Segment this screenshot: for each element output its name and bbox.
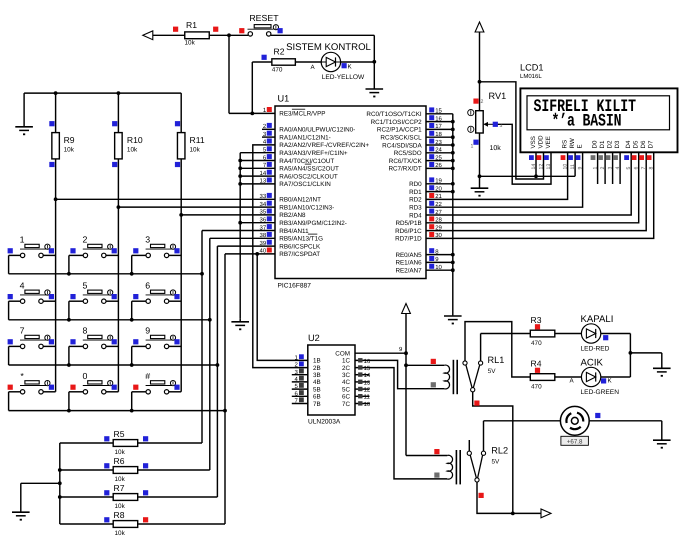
- output terminal arrow right: [541, 509, 551, 518]
- resistor R3 470: [530, 330, 555, 337]
- pin 26 RC7/RX/DT: [429, 162, 434, 167]
- wire: +5V arrow down to RV1: [479, 32, 481, 111]
- svg-text:10k: 10k: [115, 530, 126, 537]
- wire: RL1 NO throw to R4: [465, 322, 530, 377]
- node: pin6 tap: [238, 159, 242, 163]
- pin 5 RA3/AN3/VREF+/C1IN+: [267, 146, 272, 151]
- pin 25 RC6/TX/CK: [429, 154, 434, 159]
- svg-text:COM: COM: [335, 351, 350, 358]
- wire: column2 net to PIC pin34 RB1: [118, 206, 275, 208]
- led KAPALI LED-RED: [581, 324, 600, 343]
- svg-text:15: 15: [364, 365, 371, 372]
- power terminal arrow up (LCD supply): [475, 22, 484, 32]
- wire: row2/R6 vertical to PIC pin38 RB5: [209, 238, 211, 470]
- svg-text:ACIK: ACIK: [581, 357, 604, 368]
- svg-text:4: 4: [615, 167, 621, 170]
- svg-text:12: 12: [539, 164, 545, 170]
- pin 15 RC0/T1OSO/T1CKI: [429, 107, 434, 112]
- svg-text:R7: R7: [114, 483, 125, 493]
- ground for motor: [661, 421, 663, 440]
- node: LED cathode / ground junction: [372, 60, 376, 64]
- wire: row1/R5 vertical to PIC pin37 RB4: [201, 231, 203, 444]
- node: key 2 row tap: [67, 272, 71, 276]
- pin 1 RE3/MCLR/VPP: [267, 107, 272, 112]
- wire: R8 pulldown left lead: [60, 523, 113, 525]
- ground at top-left of keypad: [23, 93, 25, 127]
- ground on PIC right bus: [452, 314, 454, 317]
- relay RL2 core: [455, 450, 457, 484]
- wire: RL1 common down: [473, 392, 513, 514]
- svg-text:14: 14: [364, 372, 371, 379]
- svg-text:R2: R2: [274, 47, 285, 57]
- wire: motor to ground: [589, 420, 662, 422]
- pin 39 RB6/ICSPCLK: [267, 240, 272, 245]
- resistor R6 10k: [113, 467, 138, 474]
- resistor R4 470: [530, 374, 555, 381]
- svg-text:RL2: RL2: [491, 446, 508, 456]
- node: pin40/1B tap: [255, 252, 259, 256]
- svg-text:34: 34: [260, 201, 267, 208]
- svg-text:5B: 5B: [313, 386, 321, 393]
- wire: led rail to ground: [630, 352, 661, 354]
- resistor R11 10k: [177, 133, 185, 159]
- wire: +5V arrow to R1 reset rail: [153, 34, 185, 36]
- svg-text:2: 2: [82, 235, 87, 245]
- wire: down to LED cathode node: [373, 35, 375, 62]
- svg-text:RV1: RV1: [489, 91, 507, 101]
- node: key 9 row tap: [130, 363, 134, 367]
- wire: RL1 NC throw to R3: [480, 334, 482, 362]
- svg-text:E: E: [576, 144, 583, 148]
- pin 35 RB2/AN8: [267, 209, 272, 214]
- svg-text:10: 10: [563, 164, 569, 170]
- wire: KAPALI cathode to led-ground rail: [601, 333, 631, 335]
- led D1 LED-YELLOW SISTEM KONTROL: [321, 52, 340, 71]
- svg-text:R10: R10: [127, 135, 143, 145]
- node: relay commons junction: [511, 512, 515, 516]
- svg-text:D4: D4: [625, 140, 632, 148]
- svg-text:3: 3: [500, 123, 503, 129]
- pin 21 RD2: [429, 193, 434, 198]
- node: led ground tap: [629, 351, 633, 355]
- push button key 0: [69, 391, 83, 393]
- node: pin 18 RC3 tap: [451, 135, 455, 139]
- push button RESET: [248, 32, 252, 36]
- svg-text:RD4: RD4: [409, 212, 422, 219]
- svg-text:R8: R8: [114, 510, 125, 520]
- svg-text:VEE: VEE: [545, 136, 552, 148]
- svg-text:22: 22: [435, 201, 442, 208]
- node: pin7 tap: [238, 166, 242, 170]
- svg-text:5V: 5V: [488, 368, 497, 375]
- push button key 7: [9, 345, 21, 347]
- wire: +5V branch to LCD VDD: [480, 82, 544, 179]
- wire: MCLR vertical from reset junction to pin1: [228, 35, 230, 113]
- node: row2 tap: [208, 318, 212, 322]
- push button key 4: [9, 300, 21, 302]
- svg-text:RD1: RD1: [409, 189, 422, 196]
- svg-text:R9: R9: [64, 135, 75, 145]
- svg-text:470: 470: [531, 340, 542, 347]
- svg-text:0: 0: [82, 371, 87, 381]
- relay RL2 coil: [447, 455, 452, 479]
- svg-text:RS: RS: [561, 140, 568, 149]
- wire: LED-YELLOW cathode to ground node: [340, 61, 374, 63]
- wire: R2 right to LED-YELLOW anode: [295, 61, 321, 63]
- svg-text:D2: D2: [606, 140, 613, 148]
- svg-text:470: 470: [531, 383, 542, 390]
- svg-text:VDD: VDD: [537, 135, 544, 149]
- wire: R9 column vertical: [55, 93, 57, 133]
- resistor R9 10k: [52, 133, 60, 159]
- wire: R2 left lead down to pin1 line: [251, 62, 253, 113]
- svg-text:RB7/ICSPDAT: RB7/ICSPDAT: [279, 251, 320, 258]
- wire: PIC pin 16 RC1 stub to bus: [426, 121, 453, 123]
- resistor R10 10k: [115, 133, 123, 159]
- driver U2 ULN2003A: [308, 345, 355, 415]
- pin 17 RC2/P1A/CCP1: [429, 123, 434, 128]
- pin 38 RB5/AN13/T1G: [267, 232, 272, 237]
- svg-text:RA7/OSC1/CLKIN: RA7/OSC1/CLKIN: [279, 181, 331, 188]
- node: pin 9 RE1 tap: [451, 261, 455, 265]
- wire: PIC pin29 RD6 to LCD D6: [426, 152, 646, 230]
- node: row1 tap: [200, 272, 204, 276]
- wire: ACIK cathode to led-ground rail: [601, 376, 631, 378]
- wire: R7 pulldown left lead: [60, 496, 113, 498]
- resistor R2 470: [272, 59, 296, 65]
- svg-text:RD6/P1C: RD6/P1C: [395, 228, 422, 235]
- wire: PIC pin 25 RC6 stub to bus: [426, 160, 453, 162]
- pin 10 RE2/AN7: [429, 264, 434, 269]
- wire: PIC pin28 RD5 to LCD D5: [426, 152, 639, 223]
- svg-text:RE0/AN5: RE0/AN5: [395, 252, 422, 259]
- wire: RV1 bottom to ground and VSS rail: [479, 133, 481, 188]
- wire: ULN 1C to RL1 coil bottom: [355, 360, 444, 388]
- svg-text:R11: R11: [190, 135, 205, 145]
- svg-text:10k: 10k: [185, 40, 196, 47]
- svg-text:470: 470: [272, 67, 283, 74]
- wire: unused-pin ground bus x240 from pin5 RA3: [239, 153, 241, 319]
- ground below LED-YELLOW: [373, 62, 375, 89]
- svg-text:LED-YELLOW: LED-YELLOW: [322, 74, 365, 81]
- wire: R1 to RESET junction: [209, 34, 248, 36]
- svg-text:21: 21: [435, 193, 442, 200]
- wire: PIC pin22 RD3 to LCD E: [426, 152, 583, 207]
- U2 pin 6 6B: [292, 395, 308, 397]
- wire: row3/R7 vertical to PIC pin39 RB6: [216, 246, 218, 497]
- pin 18 RC3/SCK/SCL: [429, 131, 434, 136]
- svg-text:28: 28: [435, 217, 442, 224]
- resistor R5 10k: [113, 440, 138, 447]
- node: pin 20 RD1 tap: [451, 190, 455, 194]
- pin 8 RE0/AN5: [429, 248, 434, 253]
- svg-text:RA3/AN3/VREF+/C1IN+: RA3/AN3/VREF+/C1IN+: [279, 150, 348, 157]
- pin 33 RB0/AN12/INT: [267, 193, 272, 198]
- node: pin36 tap: [238, 221, 242, 225]
- svg-text:RD3: RD3: [409, 205, 422, 212]
- wire: PIC pin4 RA2 to ULN 2B: [253, 145, 308, 368]
- node: junction R1/RESET/pin1 drop: [227, 33, 231, 37]
- node: R6 tap: [58, 468, 62, 472]
- svg-text:RC2/P1A/CCP1: RC2/P1A/CCP1: [377, 127, 422, 134]
- U2 pin 13 4C: [355, 381, 370, 383]
- wire: VSS/RW ground rail: [480, 175, 576, 177]
- svg-text:VSS: VSS: [530, 136, 537, 148]
- relay RL1 coil: [444, 365, 449, 389]
- wire: LCD D2 stub: [612, 152, 614, 184]
- wire: pin14 RA6 to bus: [240, 175, 275, 177]
- led ACIK LED-GREEN: [581, 367, 600, 386]
- wire: PIC pin2 stub: [262, 128, 275, 130]
- svg-text:RC4/SDI/SDA: RC4/SDI/SDA: [382, 142, 422, 149]
- svg-text:17: 17: [435, 123, 442, 130]
- svg-text:5C: 5C: [342, 386, 351, 393]
- svg-text:R5: R5: [114, 429, 125, 439]
- svg-text:D7: D7: [648, 140, 655, 148]
- svg-text:6: 6: [145, 280, 150, 290]
- svg-text:RE1/AN6: RE1/AN6: [395, 260, 422, 267]
- node: key 8 row tap: [67, 363, 71, 367]
- node: col1 junction: [54, 197, 58, 201]
- svg-text:3: 3: [608, 167, 614, 170]
- node: R7 tap: [58, 495, 62, 499]
- push button key 2: [69, 254, 83, 256]
- svg-text:RA6/OSC2/CLKOUT: RA6/OSC2/CLKOUT: [279, 173, 338, 180]
- push button key 3: [132, 254, 146, 256]
- svg-text:1B: 1B: [313, 358, 321, 365]
- svg-text:R1: R1: [186, 20, 197, 30]
- svg-text:3C: 3C: [342, 372, 351, 379]
- svg-text:3B: 3B: [313, 372, 321, 379]
- svg-text:RL1: RL1: [488, 355, 505, 365]
- svg-text:RB1/AN10/C12IN3-: RB1/AN10/C12IN3-: [279, 204, 334, 211]
- wire: PIC pin 23 RC4 stub to bus: [426, 144, 453, 146]
- wire: R5 right lead: [138, 442, 202, 444]
- wire: R10 column vertical: [117, 93, 119, 133]
- node: pin 23 RC4 tap: [451, 143, 455, 147]
- wire: ULN COM stub: [355, 352, 406, 354]
- wire: PIC pin 8 RE0 stub to bus: [426, 254, 453, 256]
- svg-text:7: 7: [20, 326, 25, 336]
- svg-text:*: *: [20, 371, 24, 381]
- wire: R8 right lead: [138, 523, 225, 525]
- svg-text:1C: 1C: [342, 358, 351, 365]
- node: RL1 coil+ tap: [404, 363, 408, 367]
- wire: led cathodes vertical: [629, 334, 631, 378]
- svg-text:7B: 7B: [313, 401, 321, 408]
- node: +5V / VDD branch: [478, 80, 482, 84]
- svg-text:18: 18: [435, 131, 442, 138]
- wire: PIC pin 17 RC2 stub to bus: [426, 128, 453, 130]
- wire: row4 net horizontal: [9, 410, 225, 412]
- node: col2 junction: [117, 205, 121, 209]
- wire: LCD D1 stub: [604, 152, 606, 184]
- svg-text:RW: RW: [569, 138, 576, 148]
- wire: LCD RW stub down to ground rail: [574, 152, 576, 176]
- pin 4 RA2/AN2/VREF-/CVREF/C2IN+: [267, 139, 272, 144]
- svg-text:RA5/AN4/SS/C2OUT: RA5/AN4/SS/C2OUT: [279, 166, 339, 173]
- wire: row1 net horizontal: [9, 273, 202, 275]
- svg-text:SISTEM KONTROL: SISTEM KONTROL: [286, 42, 371, 53]
- svg-text:RC7/RX/DT: RC7/RX/DT: [388, 166, 421, 173]
- pin 19 RD0: [429, 177, 434, 182]
- svg-text:2: 2: [481, 99, 484, 105]
- svg-text:R3: R3: [531, 315, 542, 325]
- ground on unused-pin bus: [239, 318, 241, 322]
- node: rail/R9: [54, 91, 58, 95]
- svg-text:39: 39: [260, 240, 267, 247]
- svg-text:6B: 6B: [313, 394, 321, 401]
- svg-text:D6: D6: [640, 140, 647, 148]
- microcontroller U1 PIC16F887: [275, 106, 426, 279]
- relay RL1 switch: [463, 361, 467, 365]
- wire: PIC pin21 RD2 to LCD RS: [426, 152, 568, 199]
- svg-text:PIC16F887: PIC16F887: [278, 283, 312, 290]
- U2 pin 7 7B: [292, 403, 308, 405]
- svg-text:27: 27: [435, 209, 442, 216]
- resistor R1 10k: [185, 32, 210, 39]
- node: key 3 row tap: [130, 272, 134, 276]
- node: ground branch tap: [58, 481, 62, 485]
- svg-text:RB2/AN8: RB2/AN8: [279, 212, 306, 219]
- pin 22 RD3: [429, 201, 434, 206]
- svg-text:RA0/AN0/ULPWU/C12IN0-: RA0/AN0/ULPWU/C12IN0-: [279, 127, 355, 134]
- svg-text:10k: 10k: [64, 147, 75, 154]
- wire: PIC pin40 RB7 to ULN 1B: [257, 254, 308, 361]
- svg-text:RD0: RD0: [409, 181, 422, 188]
- svg-text:4: 4: [20, 280, 25, 290]
- U2 pin 4 4B: [292, 381, 308, 383]
- svg-text:RE2/AN7: RE2/AN7: [395, 268, 422, 275]
- svg-text:D3: D3: [614, 140, 621, 148]
- svg-text:29: 29: [435, 224, 442, 231]
- svg-text:24: 24: [435, 147, 442, 154]
- svg-text:D1: D1: [599, 140, 606, 148]
- svg-text:LED-RED: LED-RED: [581, 346, 610, 353]
- svg-text:ULN2003A: ULN2003A: [308, 419, 341, 426]
- svg-text:5: 5: [82, 280, 87, 290]
- push button key #: [132, 391, 146, 393]
- svg-text:14: 14: [531, 164, 537, 170]
- pin 34 RB1/AN10/C12IN3-: [267, 201, 272, 206]
- wire: R4 to ACIK led: [555, 376, 582, 378]
- svg-text:RC6/TX/CK: RC6/TX/CK: [389, 158, 423, 165]
- wire: PIC pin30 RD7 to LCD D7: [426, 152, 654, 238]
- svg-text:R6: R6: [114, 456, 125, 466]
- node: pin 10 RE2 tap: [451, 268, 455, 272]
- svg-text:R4: R4: [531, 358, 542, 368]
- node: pin 19 RD0 tap: [451, 182, 455, 186]
- pin 14 RA6/OSC2/CLKOUT: [267, 170, 272, 175]
- svg-text:4B: 4B: [313, 379, 321, 386]
- pin 24 RC5/SDO: [429, 146, 434, 151]
- wire: PIC pin 20 RD1 stub to bus: [426, 191, 453, 193]
- pin 28 RD5/P1B: [429, 216, 434, 221]
- node: row4 tap: [223, 409, 227, 413]
- svg-text:13: 13: [364, 379, 371, 386]
- svg-text:RB5/AN13/T1G: RB5/AN13/T1G: [279, 236, 323, 243]
- node: pin14 tap: [238, 174, 242, 178]
- wire: +5V to RL1 coil top: [406, 364, 444, 366]
- wire: PIC pin27 RD4 to LCD D4: [426, 152, 631, 215]
- motor value box +67.8: [561, 436, 589, 445]
- pin 7 RA5/AN4/SS/C2OUT: [267, 162, 272, 167]
- node: pin 26 RC7 tap: [451, 167, 455, 171]
- node: pin 16 RC1 tap: [451, 120, 455, 124]
- U2 pin 5 5B: [292, 388, 308, 390]
- svg-text:33: 33: [260, 193, 267, 200]
- svg-text:KAPALI: KAPALI: [581, 314, 614, 325]
- wire: ULN 2C to RL2 coil bottom: [355, 368, 447, 479]
- resistor R8 10k: [113, 521, 138, 528]
- svg-text:38: 38: [260, 232, 267, 239]
- svg-text:10k: 10k: [490, 144, 502, 152]
- svg-text:13: 13: [546, 164, 552, 170]
- svg-text:16: 16: [435, 115, 442, 122]
- node: VSS tap: [534, 174, 538, 178]
- svg-text:7C: 7C: [342, 401, 351, 408]
- svg-text:13: 13: [260, 178, 267, 185]
- pin 20 RD1: [429, 185, 434, 190]
- pin 40 RB7/ICSPDAT: [267, 248, 272, 253]
- wire: +5V arrow to ULN COM and relay coils: [405, 313, 407, 456]
- wire: +5V to RL2 coil top: [406, 455, 447, 457]
- svg-text:30: 30: [435, 232, 442, 239]
- svg-text:RB0/AN12/INT: RB0/AN12/INT: [279, 197, 321, 204]
- wire: row2 net horizontal: [9, 319, 210, 321]
- wire: pin7 RA5 to bus: [240, 167, 275, 169]
- potentiometer RV1 10k: [476, 111, 484, 133]
- svg-text:RC5/SDO: RC5/SDO: [394, 150, 422, 157]
- wire: PIC right ground bus: [452, 114, 454, 316]
- svg-text:RESET: RESET: [249, 13, 279, 23]
- svg-text:RA1/AN1/C12IN1-: RA1/AN1/C12IN1-: [279, 134, 330, 141]
- pin 2 RA0/AN0/ULPWU/C12IN0-: [267, 123, 272, 128]
- svg-text:10: 10: [435, 264, 442, 271]
- svg-text:RC0/T1OSO/T1CKI: RC0/T1OSO/T1CKI: [366, 111, 422, 118]
- svg-text:15: 15: [435, 108, 442, 115]
- wire: branch to bottom-left ground: [21, 482, 60, 484]
- motor M1: [560, 406, 589, 435]
- svg-text:23: 23: [435, 139, 442, 146]
- wire: R6 pulldown left lead: [60, 469, 113, 471]
- U2 pin 3 3B: [292, 374, 308, 376]
- U2 pin 11 6C: [355, 395, 370, 397]
- svg-text:RD2: RD2: [409, 197, 422, 204]
- node: row3 tap: [216, 363, 220, 367]
- wire: keypad top rail to ground: [24, 92, 181, 94]
- node: rail/R10: [117, 91, 121, 95]
- node: COM tap: [404, 351, 408, 355]
- svg-text:U2: U2: [308, 333, 320, 343]
- wire: PIC pin 24 RC5 stub to bus: [426, 152, 453, 154]
- svg-text:11: 11: [570, 164, 576, 169]
- svg-text:10: 10: [364, 401, 371, 408]
- svg-text:7: 7: [641, 167, 647, 170]
- svg-text:RB3/AN9/PGM/C12IN2-: RB3/AN9/PGM/C12IN2-: [279, 220, 347, 227]
- U2 pin 10 7C: [355, 403, 370, 405]
- ground for indicator leds: [661, 353, 663, 368]
- pin 29 RD6/P1C: [429, 224, 434, 229]
- push button key 1: [9, 254, 21, 256]
- node: R2 drop joins pin1 line: [250, 112, 254, 116]
- svg-text:RB6/ICSPCLK: RB6/ICSPCLK: [279, 243, 321, 250]
- svg-text:12: 12: [364, 387, 371, 394]
- svg-text:8: 8: [82, 326, 87, 336]
- ground below RV1: [479, 187, 481, 189]
- U2 pin 14 3C: [355, 374, 370, 376]
- power terminal arrow up (relay supply): [402, 304, 411, 314]
